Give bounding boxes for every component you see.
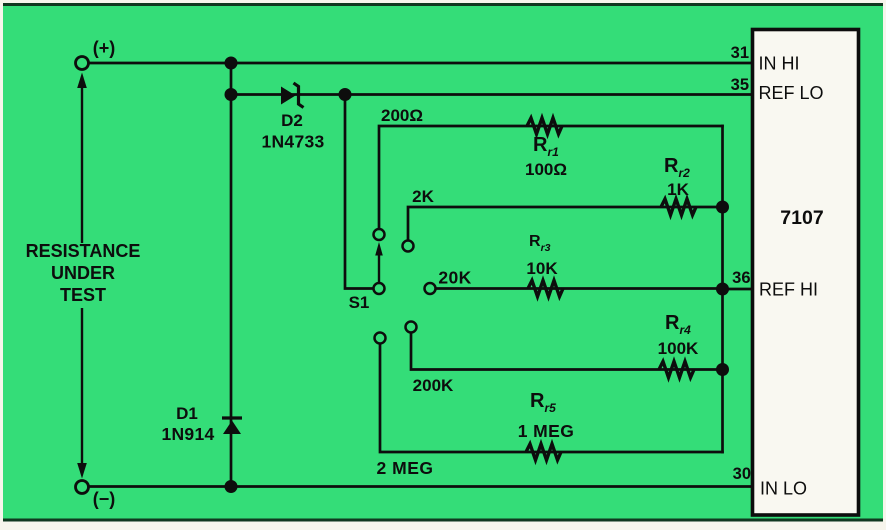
diode D1 1N914 [161, 404, 242, 444]
svg-text:D1: D1 [176, 404, 198, 423]
svg-text:(−): (−) [93, 489, 116, 509]
junction: Rr2 / right bus [716, 201, 729, 214]
wire: right vertical bus [721, 126, 724, 452]
svg-text:36: 36 [732, 269, 750, 287]
svg-text:7107: 7107 [780, 207, 823, 229]
svg-text:IN LO: IN LO [760, 479, 807, 499]
svg-text:IN HI: IN HI [759, 54, 800, 74]
svg-text:1N4733: 1N4733 [261, 132, 324, 152]
junction: top rail / left bus [225, 57, 238, 70]
svg-text:(+): (+) [93, 38, 116, 58]
svg-text:100K: 100K [658, 339, 699, 358]
svg-text:200Ω: 200Ω [381, 106, 423, 125]
switch contact 2 MEG [375, 333, 386, 344]
wire: REF HI pin 36 stub [723, 288, 754, 291]
resistor Rr4 100K [658, 312, 699, 378]
switch contact 200K [406, 322, 417, 333]
svg-text:35: 35 [731, 76, 749, 94]
svg-text:31: 31 [731, 44, 749, 62]
wire: top rail (+) to IN HI pin 31 [89, 62, 753, 65]
svg-text:20K: 20K [438, 268, 471, 288]
switch contact 2K [403, 241, 414, 252]
arrow up to (+) terminal [77, 73, 87, 244]
svg-text:1K: 1K [667, 180, 689, 199]
wire: 20K branch through Rr3 to REF HI [436, 287, 723, 290]
terminal (+) [76, 57, 89, 70]
junction: REF LO rail / left bus [225, 88, 238, 101]
switch S1 wiper [349, 242, 385, 312]
resistor Rr3 10K [526, 233, 563, 297]
resistor Rr5 1 MEG [518, 390, 574, 460]
resistor Rr1 100 ohm [525, 118, 567, 179]
svg-text:D2: D2 [281, 111, 303, 130]
svg-text:REF HI: REF HI [759, 280, 818, 300]
label RESISTANCE UNDER TEST [26, 241, 141, 305]
junction: Rr4 / right bus [716, 363, 729, 376]
svg-text:S1: S1 [349, 293, 370, 312]
svg-text:30: 30 [733, 465, 751, 483]
svg-text:2 MEG: 2 MEG [377, 458, 434, 478]
switch contact 200 ohm [374, 229, 385, 240]
wire: 2K branch to Rr2 [408, 207, 723, 240]
svg-text:100Ω: 100Ω [525, 160, 567, 179]
svg-text:1N914: 1N914 [161, 424, 214, 444]
wire: S1 wiper feed [345, 95, 372, 289]
switch contact 20K [425, 283, 436, 294]
wire: 2 MEG branch to Rr5 [380, 344, 723, 452]
wire: bottom rail (-) to IN LO pin 30 [89, 485, 753, 488]
IC U1 7107 package [753, 30, 859, 516]
svg-text:RESISTANCE: RESISTANCE [26, 241, 141, 261]
wire: 200K branch to Rr4 [411, 333, 723, 370]
wire: REF LO rail through D2 to pin 35 [231, 93, 753, 96]
svg-text:10K: 10K [526, 259, 558, 278]
arrow down to (-) terminal [77, 308, 87, 479]
svg-text:200K: 200K [413, 376, 454, 395]
svg-text:1 MEG: 1 MEG [518, 421, 574, 441]
junction: bottom rail / left bus [225, 480, 238, 493]
svg-text:TEST: TEST [60, 285, 106, 305]
junction: REF HI / right bus [716, 283, 729, 296]
wire: 200 ohm branch to Rr1 [379, 126, 723, 228]
svg-text:2K: 2K [412, 187, 434, 206]
svg-text:UNDER: UNDER [51, 263, 115, 283]
diode D2 1N4733 (zener) [261, 83, 324, 152]
junction: D2 cathode / S1 feed [339, 88, 352, 101]
svg-text:REF LO: REF LO [759, 83, 824, 103]
resistor Rr2 1K [661, 155, 696, 215]
terminal (-) [76, 481, 89, 494]
wire: left vertical bus through D1 [230, 63, 233, 487]
